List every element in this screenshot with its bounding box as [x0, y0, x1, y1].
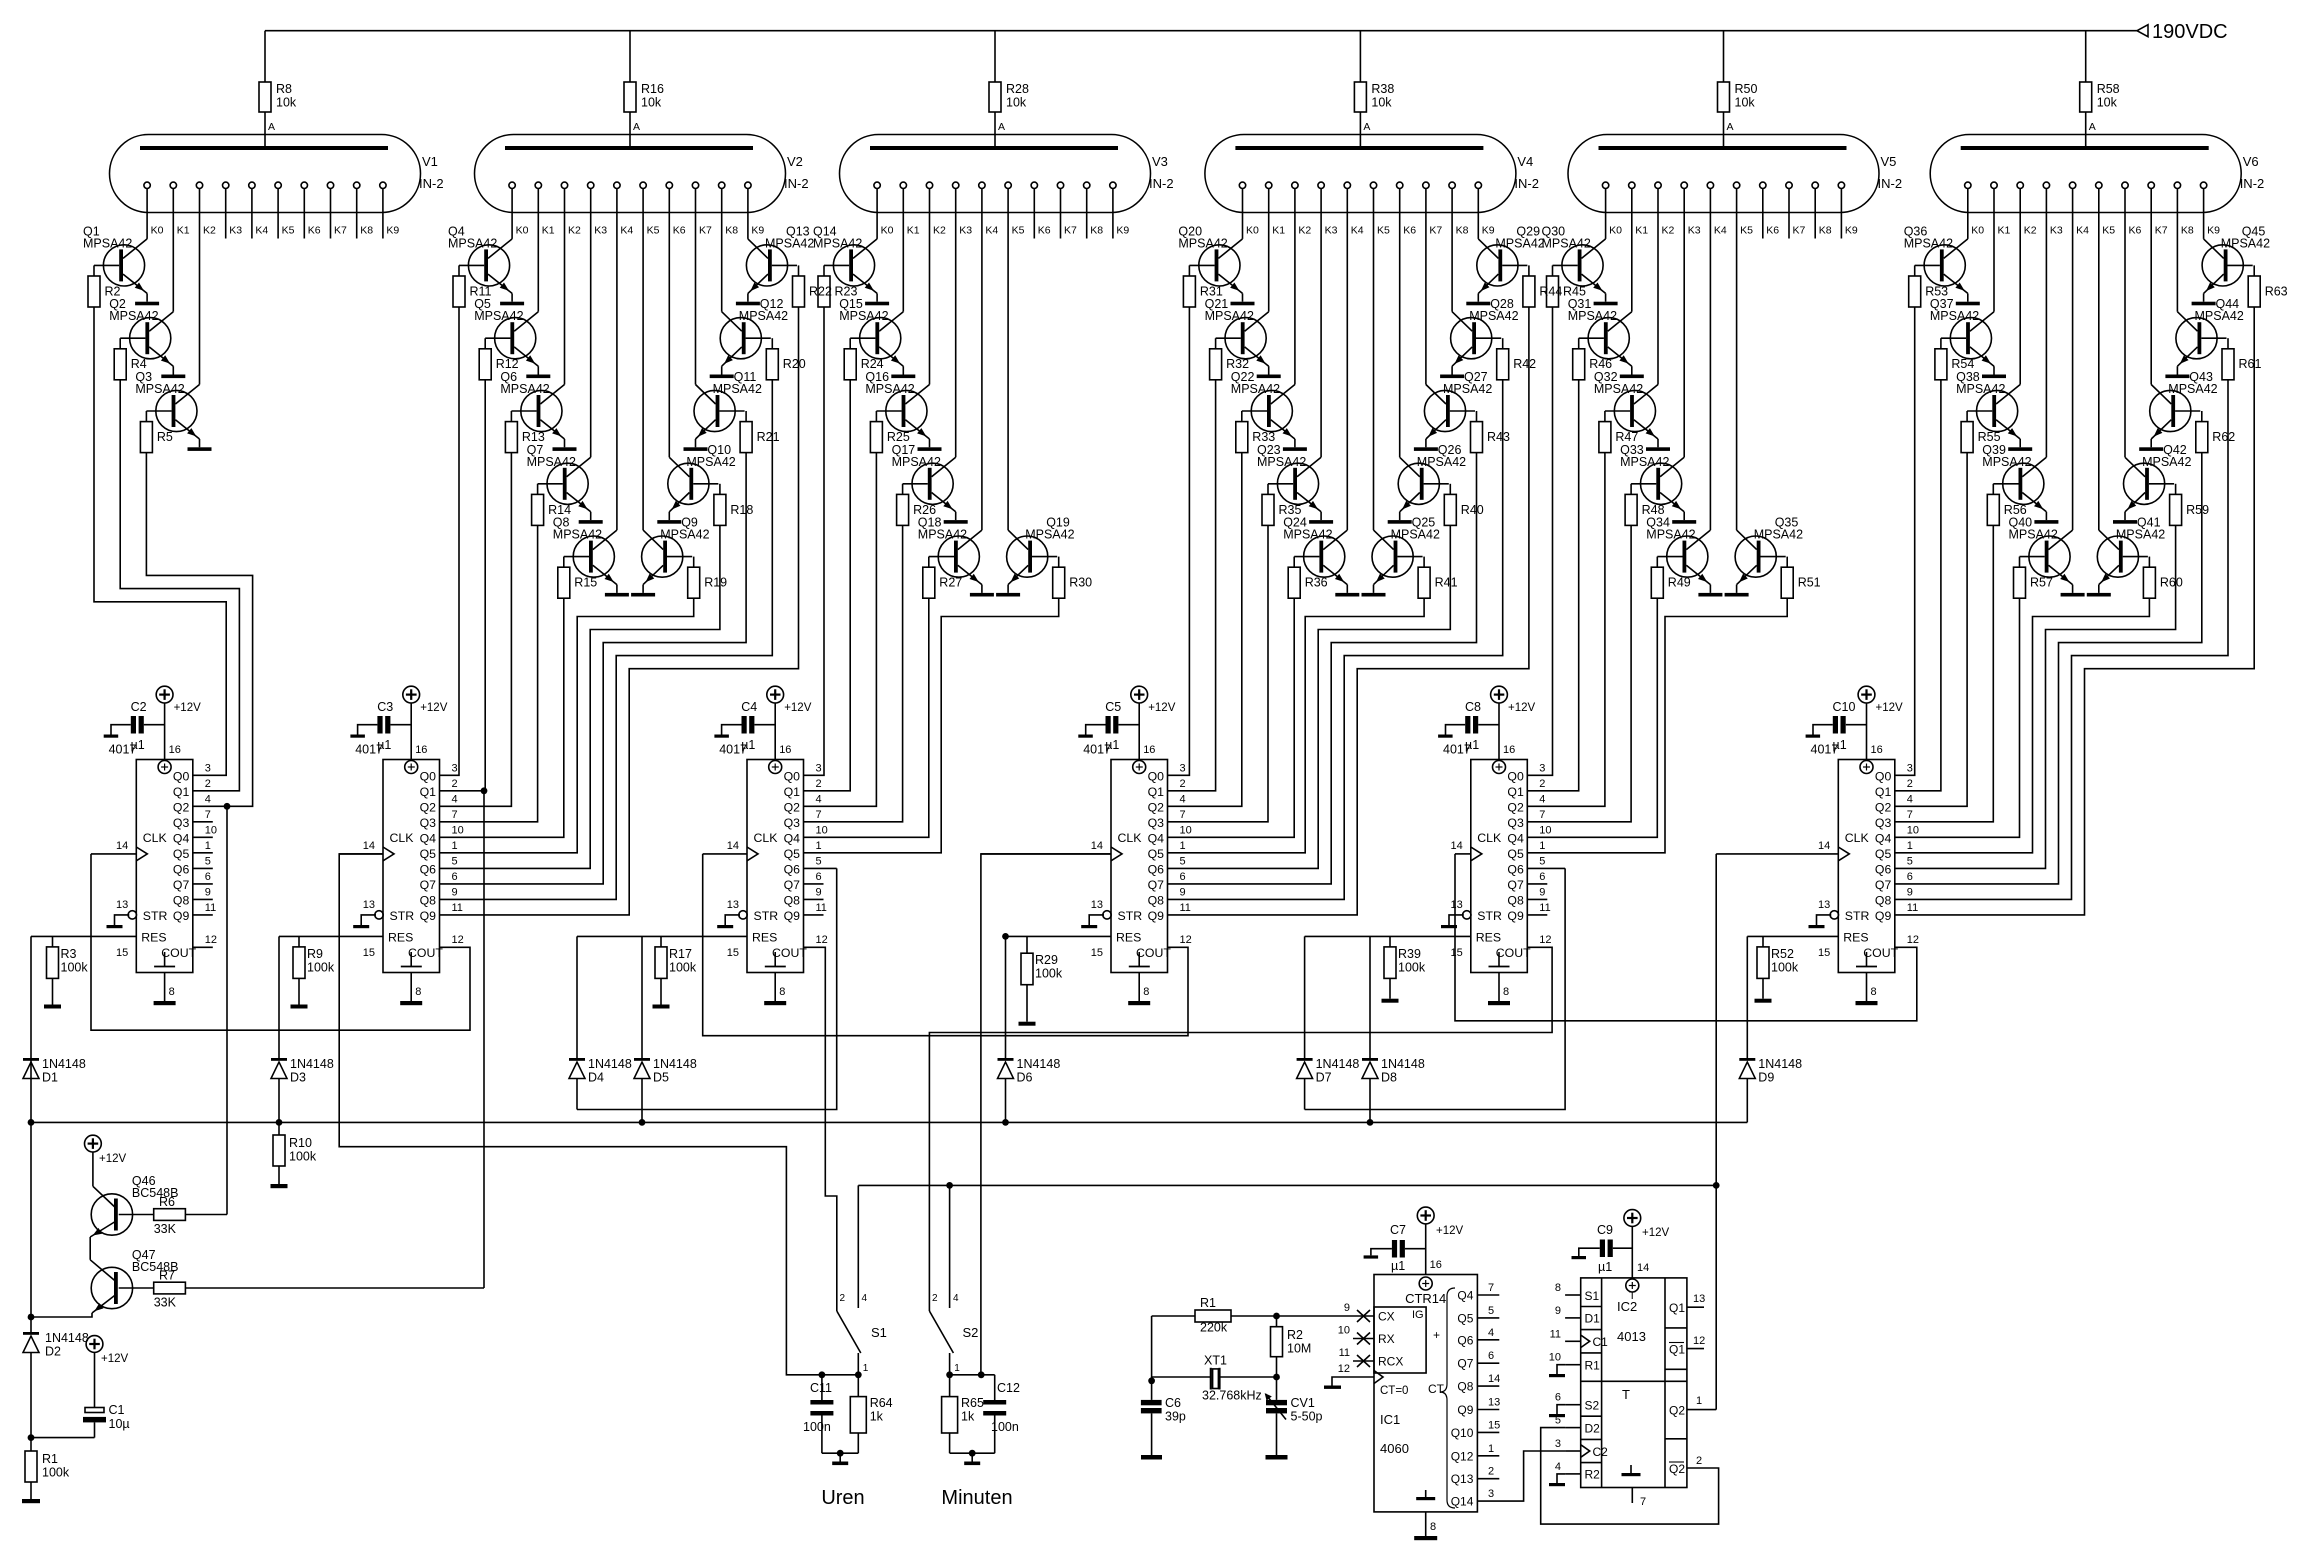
- svg-text:9: 9: [205, 886, 211, 898]
- svg-text:K1: K1: [1272, 225, 1285, 237]
- svg-text:14: 14: [116, 840, 128, 852]
- svg-text:K9: K9: [1482, 225, 1495, 237]
- svg-text:14: 14: [363, 840, 375, 852]
- svg-text:8: 8: [1871, 986, 1877, 998]
- svg-text:Q3: Q3: [1875, 816, 1892, 830]
- svg-text:V1: V1: [422, 154, 438, 169]
- diode D3 1N4148: [271, 936, 334, 1122]
- svg-text:K6: K6: [308, 225, 321, 237]
- svg-text:R43: R43: [1487, 430, 1510, 444]
- svg-text:CTR14: CTR14: [1405, 1291, 1446, 1306]
- svg-text:5: 5: [452, 855, 458, 867]
- tube V4 pin K5: [1370, 182, 1390, 530]
- capacitor C12 100n: [983, 1375, 1020, 1453]
- ground (emitter of Q29): [1466, 302, 1490, 306]
- IC2 pin 14 +12V: [1624, 1210, 1670, 1278]
- transistor Q23 MPSA42: [1257, 443, 1321, 520]
- svg-text:RCX: RCX: [1378, 1355, 1403, 1369]
- ground (emitter of Q20): [1231, 302, 1255, 306]
- 4017 #1 pin Q4: [173, 824, 217, 845]
- svg-text:K3: K3: [1688, 225, 1701, 237]
- svg-text:Q2: Q2: [173, 800, 190, 814]
- svg-text:K8: K8: [360, 225, 373, 237]
- ground (emitter of Q4): [500, 302, 524, 306]
- svg-text:K4: K4: [985, 225, 998, 237]
- svg-text:K7: K7: [1429, 225, 1442, 237]
- wire 4017 #3 Q5 to R30: [804, 598, 1059, 853]
- svg-text:Uren: Uren: [821, 1487, 864, 1509]
- svg-text:2: 2: [816, 778, 822, 790]
- svg-text:10: 10: [1549, 1352, 1561, 1364]
- resistor R2 10M: [1271, 1316, 1312, 1380]
- wire CLK of 4017 #2: [339, 853, 383, 855]
- tube V3 pin K2: [926, 182, 946, 384]
- svg-text:D2: D2: [1585, 1421, 1601, 1435]
- svg-text:39p: 39p: [1165, 1410, 1186, 1424]
- svg-text:C1: C1: [109, 1403, 125, 1417]
- wire COUT 4017 #3 to S1 pin 2: [804, 947, 837, 1311]
- resistor R21 (base resistor of Q11): [719, 411, 779, 453]
- svg-text:K2: K2: [2024, 225, 2037, 237]
- 4017 #3 pin Q7: [784, 871, 824, 892]
- wire 4017 #4 Q7 to R43: [1168, 453, 1477, 884]
- resistor R23 (base resistor of Q14): [818, 265, 857, 307]
- tube V1 pin K5: [275, 182, 295, 238]
- wire 4017 #6 Q5 to R60: [1895, 598, 2150, 853]
- svg-text:R19: R19: [704, 576, 727, 590]
- ground (emitter of Q12): [710, 375, 734, 379]
- tube V1 pin K7: [327, 182, 347, 238]
- ground (emitter of Q39): [2034, 520, 2058, 524]
- IC1 outputs Q4-Q14: [1451, 1282, 1501, 1509]
- wire 4017 #6 Q0 to R53: [1895, 307, 1915, 775]
- 4017 #6 pin Q7: [1875, 871, 1913, 892]
- svg-text:R40: R40: [1461, 503, 1484, 517]
- wire 4017 #5 Q5 to R51: [1527, 598, 1787, 853]
- transistor Q36 MPSA42: [1904, 224, 1968, 301]
- ground (emitter of Q10): [657, 520, 681, 524]
- wire 4017 #6 Q1 to R54: [1895, 380, 1941, 791]
- 4017 #2 pin Q0: [420, 762, 458, 783]
- wire 4017 #2 Q0 to R11: [440, 307, 460, 775]
- tube V3 pin K3: [953, 182, 973, 457]
- svg-text:6: 6: [1488, 1350, 1494, 1362]
- svg-text:K7: K7: [1793, 225, 1806, 237]
- tube V3 pin K9: [1110, 182, 1130, 238]
- nixie tube V5 IN-2: [1568, 121, 1902, 213]
- svg-text:11: 11: [452, 902, 463, 914]
- capacitor C10 0.1u (decoupling): [1806, 700, 1867, 757]
- wire Q1 of 4017 #2 to R7: [481, 787, 488, 1288]
- transistor Q15 MPSA42: [839, 297, 903, 374]
- 4017 #4 pin Q5: [1148, 840, 1186, 861]
- svg-text:K9: K9: [751, 225, 764, 237]
- svg-text:COUT: COUT: [772, 946, 807, 960]
- wire 4017 #5 Q4 to R49: [1527, 598, 1657, 837]
- svg-text:9: 9: [1907, 886, 1913, 898]
- svg-text:R17: R17: [669, 947, 692, 961]
- wire 4017 #5 Q3 to R48: [1527, 525, 1631, 821]
- wire 4017 #2 Q8 to R20: [440, 380, 773, 900]
- net 1Hz rail (4013 Q2 to S1/S2 pin4 and CLK 4017 #6): [858, 854, 1719, 1410]
- transistor Q22 MPSA42: [1231, 370, 1295, 447]
- svg-text:Q3: Q3: [784, 816, 801, 830]
- tube V6 pin K9: [2200, 182, 2220, 239]
- svg-text:S2: S2: [1585, 1399, 1600, 1413]
- transistor Q45 MPSA42: [2202, 224, 2270, 301]
- tube V2 pin K0: [509, 182, 529, 239]
- svg-text:5: 5: [1907, 855, 1913, 867]
- svg-text:16: 16: [779, 744, 791, 756]
- svg-text:K4: K4: [255, 225, 268, 237]
- svg-text:K4: K4: [2076, 225, 2089, 237]
- svg-text:A: A: [998, 121, 1005, 133]
- resistor R49 (base resistor of Q34): [1651, 557, 1690, 599]
- svg-text:R60: R60: [2160, 576, 2183, 590]
- tube V3 pin K1: [900, 182, 920, 312]
- svg-text:4: 4: [452, 793, 458, 805]
- 4017 #4 pin Q9: [1148, 902, 1191, 923]
- svg-text:+12V: +12V: [101, 1353, 129, 1365]
- svg-text:MPSA42: MPSA42: [2168, 382, 2217, 396]
- svg-text:D4: D4: [588, 1071, 604, 1085]
- wire 4017 #4 Q8 to R42: [1168, 380, 1503, 900]
- svg-text:CT=0: CT=0: [1380, 1385, 1408, 1397]
- 4017 #6 pin Q1: [1875, 778, 1913, 799]
- transistor Q27 MPSA42: [1424, 370, 1492, 447]
- svg-text:D9: D9: [1758, 1071, 1774, 1085]
- resistor R3 100k (reset pulldown): [44, 936, 88, 1008]
- wire 4017 #1 Q2 to R5: [146, 453, 252, 807]
- svg-text:7: 7: [205, 809, 211, 821]
- transistor Q46 BC548B: [90, 1152, 178, 1260]
- transistor Q42 MPSA42: [2124, 443, 2192, 520]
- svg-text:Q6: Q6: [1457, 1333, 1473, 1347]
- svg-text:MPSA42: MPSA42: [527, 455, 576, 469]
- switch S1 (hours set): [837, 1185, 887, 1374]
- svg-text:V3: V3: [1152, 154, 1168, 169]
- wire 4017 #4 Q2 to R33: [1168, 453, 1242, 807]
- svg-text:K0: K0: [1971, 225, 1984, 237]
- 4017 #1 pin Q1: [173, 778, 211, 799]
- resistor R64 1k: [850, 1375, 892, 1453]
- ground (emitter of Q27): [1414, 447, 1438, 451]
- 4017 #1 pin Q3: [173, 809, 213, 830]
- svg-text:Q3: Q3: [173, 816, 190, 830]
- 4017 #3 pin Q4: [784, 824, 828, 845]
- svg-text:Q2: Q2: [1669, 1462, 1685, 1476]
- svg-text:R57: R57: [2030, 576, 2053, 590]
- diode D1 1N4148: [23, 936, 86, 1122]
- svg-text:RX: RX: [1378, 1332, 1395, 1346]
- svg-text:100n: 100n: [803, 1420, 831, 1434]
- resistor R20 (base resistor of Q12): [746, 338, 806, 380]
- svg-text:5: 5: [1539, 855, 1545, 867]
- wire RES line of 4017 #6: [1747, 935, 1838, 937]
- svg-text:Q1: Q1: [1875, 785, 1892, 799]
- tube V3 pin K6: [1031, 182, 1051, 238]
- svg-text:K5: K5: [647, 225, 660, 237]
- tube V3 pin K5: [1005, 182, 1025, 530]
- svg-text:16: 16: [1143, 744, 1155, 756]
- ground (emitter of Q34): [1698, 593, 1722, 597]
- 4017 #6 pin Q2: [1875, 793, 1913, 814]
- IC 4017 decade counter (drives V2): [353, 703, 443, 1005]
- resistor R44 (base resistor of Q29): [1502, 265, 1562, 307]
- wire 4017 #2 Q4 to R15: [440, 598, 564, 837]
- wire 4017 #4 Q4 to R36: [1168, 598, 1295, 837]
- svg-text:13: 13: [1818, 899, 1830, 911]
- svg-text:9: 9: [1180, 886, 1186, 898]
- svg-text:MPSA42: MPSA42: [448, 236, 497, 250]
- transistor Q8 MPSA42: [553, 516, 617, 593]
- ground (emitter of Q45): [2192, 302, 2216, 306]
- ground (emitter of Q3): [188, 447, 212, 451]
- svg-text:MPSA42: MPSA42: [1391, 528, 1440, 542]
- svg-text:Q6: Q6: [173, 862, 190, 876]
- svg-text:6: 6: [452, 871, 458, 883]
- svg-text:R49: R49: [1668, 576, 1691, 590]
- svg-text:16: 16: [1430, 1259, 1442, 1271]
- svg-text:MPSA42: MPSA42: [1257, 455, 1306, 469]
- wire CLK of 4017 #6: [1716, 853, 1838, 855]
- svg-text:C7: C7: [1390, 1223, 1406, 1237]
- svg-text:K8: K8: [1090, 225, 1103, 237]
- svg-text:R6: R6: [159, 1195, 175, 1209]
- svg-text:7: 7: [1488, 1282, 1494, 1294]
- resistor R65 1k: [942, 1375, 984, 1453]
- wire 4017 #5 Q1 to R46: [1527, 380, 1578, 791]
- svg-text:C9: C9: [1597, 1223, 1613, 1237]
- svg-text:COUT: COUT: [1863, 946, 1898, 960]
- svg-text:K9: K9: [1845, 225, 1858, 237]
- 4017 #1 pin Q5: [173, 840, 213, 861]
- tube V3 pin K0: [874, 182, 894, 239]
- tube V1 pin K2: [196, 182, 216, 384]
- tube V4 pin K4: [1344, 182, 1364, 530]
- svg-text:14: 14: [1637, 1262, 1649, 1274]
- svg-text:Q13: Q13: [1451, 1472, 1474, 1486]
- ground (emitter of Q15): [891, 375, 915, 379]
- svg-text:IN-2: IN-2: [1149, 176, 1174, 191]
- svg-text:Q9: Q9: [173, 909, 190, 923]
- svg-text:100k: 100k: [1398, 960, 1426, 974]
- svg-text:COUT: COUT: [1496, 946, 1531, 960]
- svg-text:R29: R29: [1035, 953, 1058, 967]
- svg-text:R39: R39: [1398, 947, 1421, 961]
- wire 4017 #4 Q3 to R35: [1168, 525, 1269, 821]
- svg-text:CLK: CLK: [1845, 831, 1870, 845]
- svg-text:K2: K2: [933, 225, 946, 237]
- ground (emitter of Q31): [1620, 375, 1644, 379]
- svg-text:K5: K5: [1740, 225, 1753, 237]
- 4017 #5 pin Q6: [1507, 855, 1565, 876]
- svg-text:13: 13: [727, 899, 739, 911]
- svg-text:7: 7: [1640, 1496, 1646, 1508]
- 4017 #3 pin Q1: [784, 778, 822, 799]
- 4017 #1 pin Q2: [173, 793, 211, 814]
- resistor R28 10k (anode resistor of V3): [989, 31, 1029, 146]
- wire COUT 4017 #1 stub: [193, 946, 213, 948]
- svg-text:C11: C11: [810, 1381, 832, 1395]
- IC1 oscillator pins CX RX RCX: [1277, 1302, 1404, 1369]
- wire 4017 #6 Q3 to R56: [1895, 525, 1994, 821]
- tube V2 pin K4: [614, 182, 634, 530]
- svg-text:R2: R2: [1287, 1328, 1303, 1342]
- transistor Q39 MPSA42: [1982, 443, 2046, 520]
- tube V6 pin K8: [2174, 182, 2194, 312]
- 4017 #1 pin Q0: [173, 762, 211, 783]
- IC IC1 4060 (oscillator/divider CTR14): [1374, 1275, 1477, 1512]
- svg-text:T: T: [1622, 1387, 1630, 1402]
- svg-text:5-50p: 5-50p: [1291, 1410, 1323, 1424]
- svg-text:MPSA42: MPSA42: [474, 309, 523, 323]
- svg-text:1: 1: [1907, 840, 1913, 852]
- svg-text:MPSA42: MPSA42: [1646, 528, 1695, 542]
- svg-text:12: 12: [1539, 934, 1551, 946]
- svg-text:K3: K3: [229, 225, 242, 237]
- svg-text:C4: C4: [741, 700, 757, 714]
- ground (emitter of Q25): [1362, 593, 1386, 597]
- svg-text:MPSA42: MPSA42: [1469, 309, 1518, 323]
- svg-text:1: 1: [452, 840, 458, 852]
- svg-text:A: A: [2089, 121, 2096, 133]
- transistor Q13 MPSA42: [746, 224, 814, 301]
- nixie tube V4 IN-2: [1205, 121, 1539, 213]
- svg-text:Q5: Q5: [1875, 847, 1892, 861]
- ground (emitter of Q5): [526, 375, 550, 379]
- wire CLK of 4017 #1: [91, 853, 136, 855]
- resistor R9 100k (reset pulldown): [291, 936, 335, 1008]
- resistor R60 (base resistor of Q41): [2123, 557, 2183, 599]
- svg-text:220k: 220k: [1200, 1321, 1228, 1335]
- 4017 #4 pin Q0: [1148, 762, 1186, 783]
- resistor R7 33K: [154, 1269, 484, 1310]
- svg-text:1: 1: [1488, 1443, 1494, 1455]
- svg-text:10: 10: [1907, 824, 1919, 836]
- svg-text:MPSA42: MPSA42: [1956, 382, 2005, 396]
- svg-text:100k: 100k: [1035, 967, 1063, 981]
- svg-text:Q4: Q4: [1875, 831, 1892, 845]
- svg-text:R21: R21: [757, 430, 780, 444]
- transistor Q11 MPSA42: [694, 370, 762, 447]
- svg-text:12: 12: [1907, 934, 1919, 946]
- svg-text:5: 5: [205, 855, 211, 867]
- ground (S2 node): [950, 1450, 995, 1465]
- wire 4017 #4 Q6 to R40: [1168, 525, 1451, 868]
- svg-text:5: 5: [1180, 855, 1186, 867]
- resistor R54 (base resistor of Q37): [1935, 338, 1974, 380]
- ground (emitter of Q44): [2165, 375, 2189, 379]
- svg-text:1: 1: [1180, 840, 1186, 852]
- svg-text:MPSA42: MPSA42: [1283, 528, 1332, 542]
- svg-text:6: 6: [1907, 871, 1913, 883]
- svg-text:9: 9: [1555, 1305, 1561, 1317]
- svg-text:10: 10: [205, 824, 217, 836]
- tube V1 pin K6: [301, 182, 321, 238]
- svg-text:3: 3: [452, 762, 458, 774]
- svg-text:Q8: Q8: [420, 893, 437, 907]
- svg-text:8: 8: [1503, 986, 1509, 998]
- svg-text:4: 4: [953, 1293, 959, 1304]
- svg-text:4: 4: [1180, 793, 1186, 805]
- svg-text:10k: 10k: [641, 96, 662, 110]
- svg-text:Q5: Q5: [1148, 847, 1165, 861]
- resistor R15 (base resistor of Q8): [558, 557, 597, 599]
- resistor R40 (base resistor of Q26): [1424, 484, 1484, 526]
- svg-text:R59: R59: [2186, 503, 2209, 517]
- svg-text:1: 1: [954, 1363, 960, 1374]
- svg-text:2: 2: [840, 1293, 846, 1304]
- crystal XT1 32.768kHz: [1152, 1354, 1277, 1403]
- svg-text:STR: STR: [390, 909, 415, 923]
- svg-text:COUT: COUT: [408, 946, 443, 960]
- svg-text:Q1: Q1: [173, 785, 190, 799]
- svg-text:Q0: Q0: [420, 769, 437, 783]
- transistor Q38 MPSA42: [1956, 370, 2020, 447]
- wire 4017 #5 Q0 to R45: [1527, 307, 1552, 775]
- tube V6 pin K2: [2017, 182, 2037, 384]
- svg-text:6: 6: [1555, 1392, 1561, 1404]
- svg-text:Q3: Q3: [420, 816, 437, 830]
- IC2 right pins Q1 /Q1 Q2 /Q2: [1669, 1293, 1705, 1476]
- svg-text:+12V: +12V: [1148, 702, 1176, 714]
- 4017 #5 pin Q9: [1507, 902, 1550, 923]
- 4017 #5 pin COUT: [1539, 934, 1551, 946]
- svg-text:IN-2: IN-2: [1878, 176, 1903, 191]
- svg-text:4017: 4017: [1083, 743, 1111, 757]
- wire RES line of 4017 #5: [1305, 935, 1471, 937]
- resistor R39 100k (reset pulldown): [1382, 936, 1426, 1002]
- resistor R4 (base resistor of Q2): [114, 338, 147, 380]
- svg-text:R18: R18: [730, 503, 753, 517]
- svg-text:STR: STR: [754, 909, 779, 923]
- svg-text:IN-2: IN-2: [784, 176, 809, 191]
- resistor R17 100k (reset pulldown): [653, 936, 697, 1008]
- svg-text:Q8: Q8: [1457, 1380, 1473, 1394]
- transistor Q31 MPSA42: [1568, 297, 1632, 374]
- svg-text:Q5: Q5: [784, 847, 801, 861]
- wire 4017 #4 Q9 to R44: [1168, 307, 1529, 915]
- tube V5 pin K4: [1707, 182, 1727, 530]
- wire 4017 #6 Q6 to R59: [1895, 525, 2176, 868]
- tube V3 pin K4: [979, 182, 999, 530]
- ground (emitter of Q36): [1956, 302, 1980, 306]
- resistor R32 (base resistor of Q21): [1210, 338, 1249, 380]
- ground (emitter of Q28): [1440, 375, 1464, 379]
- svg-text:CLK: CLK: [390, 831, 415, 845]
- ground (S1 node): [822, 1450, 858, 1465]
- svg-text:R9: R9: [307, 947, 323, 961]
- svg-text:K1: K1: [1998, 225, 2011, 237]
- resistor R61 (base resistor of Q44): [2201, 338, 2261, 380]
- svg-text:7: 7: [452, 809, 458, 821]
- IC 4017 decade counter (drives V4): [1081, 703, 1171, 1005]
- svg-text:MPSA42: MPSA42: [892, 455, 941, 469]
- resistor R30 (base resistor of Q19): [1032, 557, 1092, 599]
- svg-text:Q8: Q8: [1148, 893, 1165, 907]
- ground (emitter of Q35): [1725, 593, 1749, 597]
- svg-text:Q14: Q14: [1451, 1495, 1474, 1509]
- svg-text:+12V: +12V: [1436, 1225, 1464, 1237]
- svg-text:R16: R16: [641, 82, 664, 96]
- svg-text:1: 1: [1696, 1395, 1702, 1407]
- transistor Q33 MPSA42: [1620, 443, 1684, 520]
- svg-text:Q2: Q2: [420, 800, 437, 814]
- ground (emitter of Q24): [1335, 593, 1359, 597]
- svg-text:Q6: Q6: [1507, 862, 1524, 876]
- svg-text:8: 8: [169, 986, 175, 998]
